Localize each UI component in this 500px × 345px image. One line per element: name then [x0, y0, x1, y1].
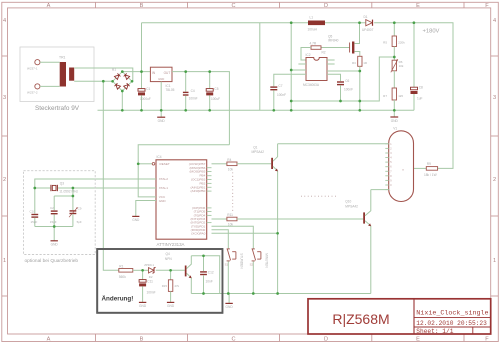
svg-text:(AIN0)PB0: (AIN0)PB0 [191, 189, 206, 193]
mcu right pin labels [189, 162, 206, 236]
svg-text:+180V: +180V [423, 29, 440, 35]
svg-text:D1: D1 [364, 15, 368, 19]
svg-text:B: B [140, 336, 144, 342]
svg-text:Steckertrafo 9V: Steckertrafo 9V [35, 105, 80, 112]
svg-text:4: 4 [493, 18, 496, 24]
svg-text:10k: 10k [228, 168, 234, 172]
wire +180V net [374, 23, 453, 169]
wire IC2 vcc feed [290, 23, 292, 111]
svg-text:C1: C1 [146, 87, 150, 91]
svg-text:R1: R1 [119, 264, 123, 268]
dotted continuation horizontal [301, 195, 336, 197]
svg-text:R5: R5 [383, 41, 387, 45]
svg-text:S1: S1 [225, 263, 229, 267]
wire emitter net to mcu [212, 232, 278, 234]
resistor R15 [162, 270, 180, 302]
crystal Q3 [35, 181, 79, 193]
change-note box border restroke [97, 249, 222, 313]
svg-text:C2: C2 [50, 206, 54, 210]
svg-text:ZPD9.1: ZPD9.1 [144, 263, 154, 267]
svg-text:C12: C12 [208, 270, 214, 274]
wire IC2 pin7 [291, 69, 306, 71]
svg-text:15pF: 15pF [31, 220, 38, 224]
microcontroller IC4 [156, 155, 207, 247]
svg-text:B: B [140, 3, 144, 9]
dotted continuation vertical [232, 173, 234, 213]
wire top rail to boost [142, 22, 309, 24]
wire xtal2 [35, 179, 156, 214]
capacitor C12 [191, 256, 219, 294]
svg-text:1000uF: 1000uF [140, 97, 151, 101]
trimmer R6 [391, 47, 404, 73]
capacitor C4 [183, 72, 198, 111]
svg-text:D: D [324, 336, 328, 342]
svg-text:C11: C11 [147, 280, 153, 284]
wire IC2 pin stubs [298, 60, 334, 64]
svg-text:100nF: 100nF [189, 97, 198, 101]
svg-text:C8: C8 [419, 86, 423, 90]
svg-text:1k5: 1k5 [398, 94, 403, 98]
wire switch gnd rail [191, 293, 370, 295]
transistor Q10 [345, 190, 371, 294]
svg-text:12.02.2010 20:55:23: 12.02.2010 20:55:23 [416, 320, 487, 327]
svg-text:C4: C4 [191, 89, 195, 93]
wire gnd bottom rail [98, 109, 415, 111]
svg-text:GND: GND [391, 119, 399, 123]
resistor R5 divider top [383, 23, 405, 47]
transformer TR1 [59, 56, 74, 87]
bridge rectifier B1 [114, 73, 131, 90]
resistor R4 base Q1 [212, 158, 272, 172]
wire bridge minus to gnd rail [121, 91, 123, 110]
ground GND switches [225, 294, 233, 310]
wire R1 to D2 [133, 269, 148, 271]
svg-text:R11: R11 [227, 213, 233, 217]
trimmer capacitor C9 [69, 188, 82, 227]
svg-text:220k: 220k [398, 41, 405, 45]
svg-text:GND: GND [226, 305, 234, 309]
svg-text:C9: C9 [78, 207, 82, 211]
nixie tube V1 [389, 127, 414, 202]
svg-text:4: 4 [3, 18, 6, 24]
svg-text:UF4007: UF4007 [362, 28, 374, 32]
svg-text:Q10: Q10 [345, 200, 351, 204]
switch S1 [212, 230, 244, 294]
svg-text:Q4: Q4 [166, 252, 170, 256]
wire sense line [327, 70, 360, 72]
switch S2 [212, 226, 269, 293]
svg-text:R3: R3 [352, 61, 356, 65]
svg-text:R2: R2 [322, 51, 326, 55]
svg-text:IC2: IC2 [306, 53, 311, 57]
ground GND under regulator [157, 110, 165, 123]
svg-text:GND: GND [132, 218, 140, 222]
svg-text:IRF840: IRF840 [328, 39, 339, 43]
svg-text:Q1: Q1 [253, 145, 257, 149]
resistor R3 sense [352, 56, 368, 110]
frame row numbers [3, 18, 496, 264]
wire +5V rail [172, 72, 229, 145]
svg-text:E: E [416, 3, 420, 9]
svg-text:MPSA42: MPSA42 [252, 150, 265, 154]
capacitor C5 [206, 72, 220, 111]
transistor Q4 [165, 252, 192, 293]
svg-text:GND: GND [158, 119, 166, 123]
svg-text:W237-2: W237-2 [27, 91, 38, 95]
wire gate drive from IC2 [301, 48, 311, 61]
wire comparator feedback [291, 57, 394, 101]
svg-text:C7: C7 [278, 84, 282, 88]
wire crystal gnd bus [35, 226, 73, 228]
svg-text:GND: GND [158, 77, 164, 81]
svg-text:560k: 560k [119, 275, 126, 279]
svg-text:2: 2 [493, 177, 496, 183]
resistor R2 gate [310, 41, 326, 54]
wire L1 to D1 [325, 22, 365, 24]
tube pin numbers [390, 143, 392, 192]
svg-text:100nF: 100nF [277, 93, 286, 97]
svg-text:Q3: Q3 [60, 181, 64, 185]
svg-text:MC34063A: MC34063A [303, 83, 320, 87]
svg-text:E: E [416, 336, 420, 342]
svg-text:C10: C10 [30, 210, 36, 214]
capacitor C1 [138, 72, 151, 111]
svg-text:Änderung!: Änderung! [102, 295, 134, 303]
svg-text:100nF: 100nF [147, 291, 156, 295]
capacitor C6 [327, 74, 353, 101]
svg-text:5pF: 5pF [77, 220, 82, 224]
svg-text:10nF: 10nF [206, 279, 213, 283]
voltage regulator IC1 78L05 [150, 67, 174, 92]
reset inversion bubble [152, 163, 155, 166]
capacitor C8 [411, 23, 424, 111]
svg-text:C: C [231, 336, 235, 342]
wire X1 leads [40, 62, 60, 86]
wire D2 to Q4 base [156, 269, 185, 271]
wire AC lower [74, 80, 112, 82]
svg-text:100uF: 100uF [211, 97, 220, 101]
svg-text:4.7R: 4.7R [310, 41, 317, 45]
svg-text:optional bei Quarzbetrieb: optional bei Quarzbetrieb [25, 258, 79, 264]
mcu right pin stubs [207, 168, 212, 223]
svg-text:OUT: OUT [164, 71, 171, 75]
svg-text:3: 3 [493, 95, 496, 101]
svg-text:W237-1: W237-1 [27, 67, 38, 71]
svg-text:18k / 1W: 18k / 1W [424, 173, 437, 177]
svg-text:L1: L1 [310, 16, 314, 20]
svg-text:NPN: NPN [165, 257, 172, 261]
svg-text:V1: V1 [393, 127, 397, 131]
svg-text:C: C [231, 3, 235, 9]
tube cathode pin stubs [385, 144, 388, 190]
svg-text:C6: C6 [345, 79, 349, 83]
wire AC upper [74, 68, 133, 81]
svg-text:R9: R9 [427, 162, 431, 166]
svg-text:100uH: 100uH [308, 28, 318, 32]
svg-text:Nixie_Clock_single: Nixie_Clock_single [416, 310, 488, 318]
resistor R11 base Q10 [212, 213, 364, 227]
svg-text:C5: C5 [214, 87, 218, 91]
capacitor C10 [30, 210, 39, 227]
ground GND crystal [51, 227, 59, 247]
title block [308, 299, 491, 334]
ground GND mcu [132, 216, 140, 222]
capacitor C2 [50, 196, 73, 227]
svg-text:78L05: 78L05 [166, 88, 175, 92]
svg-text:3: 3 [3, 95, 6, 101]
change-note box [97, 249, 222, 313]
svg-text:15pF: 15pF [50, 220, 57, 224]
svg-text:GND: GND [139, 304, 147, 308]
svg-text:1: 1 [493, 258, 496, 264]
wire xtal1 [73, 187, 156, 189]
resistor R7 divider bottom [383, 71, 403, 111]
svg-text:XTAL2: XTAL2 [159, 177, 169, 181]
zener diode D2 [144, 263, 155, 279]
svg-text:D2: D2 [149, 275, 153, 279]
svg-text:TR1: TR1 [59, 56, 66, 60]
svg-text:1: 1 [3, 258, 6, 264]
wire Q1 collector to tube pin1 [278, 143, 389, 145]
svg-text:RESET: RESET [160, 162, 170, 166]
svg-text:A: A [47, 3, 51, 9]
svg-text:47k: 47k [174, 284, 179, 288]
capacitor C7 [270, 74, 306, 110]
wire reset net [138, 145, 229, 197]
svg-text:R7: R7 [383, 94, 387, 98]
diode D1 [362, 15, 374, 32]
wire AC tap to detector [103, 81, 119, 270]
capacitor C11 [139, 270, 155, 302]
svg-text:Sheet: 1/1: Sheet: 1/1 [416, 328, 453, 335]
svg-text:GND: GND [51, 243, 59, 247]
switcher IC2 MC34063 [303, 53, 327, 87]
svg-text:S2: S2 [250, 263, 254, 267]
svg-text:A: A [47, 336, 51, 342]
ground GND C11 [139, 302, 147, 308]
svg-text:F: F [485, 336, 489, 342]
svg-text:100nF: 100nF [344, 88, 353, 92]
svg-text:IC4: IC4 [157, 155, 162, 159]
svg-text:R15: R15 [162, 284, 168, 288]
ground GND R15 [167, 302, 175, 308]
info box Steckertrafo [20, 47, 94, 102]
svg-text:XTAL1: XTAL1 [159, 186, 169, 190]
wire left bypass [259, 23, 261, 111]
mcu left pin labels [159, 162, 170, 203]
wire Q1 emitter down [277, 233, 279, 293]
svg-text:GND: GND [167, 304, 175, 308]
ground GND boost [390, 110, 398, 123]
wire Q10 collector to tube pin11 [371, 189, 389, 191]
svg-text:11.0592 MHz: 11.0592 MHz [59, 190, 78, 194]
svg-text:MINUTEN: MINUTEN [265, 253, 269, 268]
svg-text:B1: B1 [112, 67, 116, 71]
svg-text:10k: 10k [399, 64, 404, 68]
svg-text:MPSA42: MPSA42 [345, 204, 358, 208]
svg-text:(XCK)PA0: (XCK)PA0 [191, 232, 205, 236]
svg-text:GND: GND [159, 199, 167, 203]
wire mcu gnd [136, 201, 156, 217]
svg-text:2: 2 [3, 177, 6, 183]
svg-text:ATTINY2313A: ATTINY2313A [157, 242, 185, 247]
svg-text:STUNDEN: STUNDEN [240, 253, 244, 269]
connector X1-2 [27, 84, 40, 95]
mosfet Q5 [321, 23, 360, 57]
wire regulator gnd [160, 82, 162, 111]
inductor L1 [308, 16, 326, 32]
crystal option box [24, 171, 96, 255]
wire +9V raw rail [122, 23, 150, 72]
svg-text:R|Z568M: R|Z568M [332, 311, 389, 327]
connector X1-1 [27, 60, 40, 71]
resistor R9 anode [414, 162, 438, 177]
svg-text:1uF: 1uF [417, 96, 423, 100]
svg-text:D: D [324, 3, 328, 9]
svg-text:F: F [485, 3, 489, 9]
resistor R1 [119, 264, 133, 279]
svg-text:R4: R4 [227, 158, 231, 162]
transistor Q1 [252, 144, 278, 234]
